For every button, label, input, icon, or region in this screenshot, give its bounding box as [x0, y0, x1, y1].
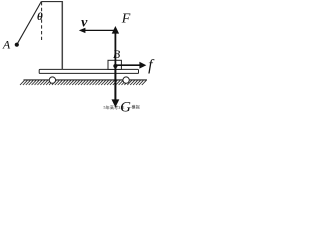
- svg-text:f: f: [148, 57, 155, 74]
- svg-text:θ: θ: [37, 11, 43, 23]
- svg-text:v: v: [81, 16, 88, 31]
- svg-text:A: A: [2, 38, 11, 52]
- svg-text:F: F: [121, 12, 131, 27]
- svg-text:模拟: 模拟: [132, 104, 140, 110]
- svg-text:5年高考3年: 5年高考3年: [104, 104, 125, 110]
- svg-text:B: B: [113, 47, 121, 61]
